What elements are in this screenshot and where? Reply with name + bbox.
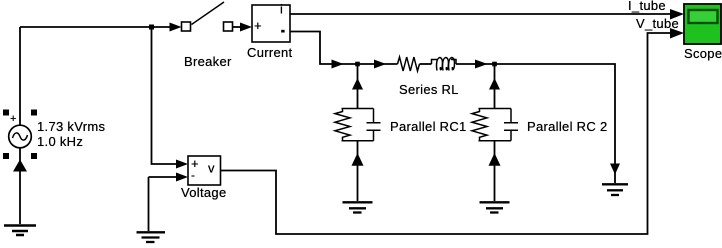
current measurement block U Current [252,2,290,43]
ground under source [4,226,36,236]
selection handle bottom-right [31,153,37,159]
svg-text:-: - [191,168,195,182]
svg-text:Parallel RC 2: Parallel RC 2 [527,119,607,134]
arrow into scope input 2 [670,28,684,39]
source circle [9,125,32,148]
arrow into scope input 1 [670,9,684,20]
arrow on bus before resistor [374,60,386,69]
svg-text:+: + [10,113,16,125]
wire breaker square2 to current arrow [233,26,244,28]
arrow up into RC2 block bottom [489,153,501,166]
wire RC1 bottom to ground [357,141,359,201]
scope block [684,4,721,44]
ground under RC2 [480,202,510,212]
breaker right contact square [224,22,233,31]
resistor R series zigzag [398,57,420,71]
wire source bottom to ground [19,148,21,224]
svg-text:1.0 kHz: 1.0 kHz [37,134,83,149]
wire RC2 junction drop [494,64,496,109]
arrow on bus before RC2 junction [475,60,488,69]
wire Voltage - input from ground [149,177,178,231]
wire bus resistor to inductor [420,63,432,65]
wire Current - output down to RL bus [290,32,398,65]
svg-text:Breaker: Breaker [184,54,232,69]
parallel RC1 block [335,109,381,141]
svg-text:Voltage: Voltage [181,185,226,200]
selection handle top-right [31,110,37,116]
parallel RC2 block [472,109,518,141]
arrow up into source bottom [13,160,27,172]
wire left vertical source column [19,27,21,126]
voltage measurement block U Voltage [176,156,221,185]
inductor L series coils [432,60,438,65]
ground under RC1 [343,202,373,212]
wire Voltage v output to V_tube scope input [221,33,672,234]
svg-text:1.73 kVrms: 1.73 kVrms [37,119,105,134]
ground right of bus [602,184,628,195]
svg-text:I_tube: I_tube [628,0,666,13]
arrow into Current block [240,23,252,32]
junction node RC1 [355,62,360,67]
breaker left contact square [182,22,191,31]
wire junction drop to Voltage + input [152,27,178,164]
breaker open switch diagonal [192,2,225,25]
wire Current i output to scope [290,13,670,15]
wire RC1 junction drop [357,64,359,109]
AC voltage source V1 [3,110,37,172]
arrow on bus after current [332,60,344,69]
wire bus inductor to right ground column [456,64,615,183]
junction node at breaker/voltage split [149,25,154,30]
junction node RC2 [492,62,497,67]
selection handle top-left [3,110,9,116]
svg-text:i: i [280,2,283,17]
wire RC2 bottom to ground [494,141,496,201]
svg-text:+: + [254,18,262,33]
arrow up into RC1 block bottom [352,153,364,166]
svg-text:v: v [208,161,215,176]
ground under Voltage [137,232,166,242]
svg-text:Current: Current [247,45,293,60]
arrow up into RC1 junction [352,78,363,90]
arrow into breaker [170,23,182,32]
selection handle bottom-left [3,153,9,159]
wire top horizontal from source to breaker [20,26,170,28]
svg-text:Scope: Scope [684,46,722,61]
svg-text:Parallel RC1: Parallel RC1 [390,119,467,134]
svg-text:Series RL: Series RL [399,82,459,97]
arrow down into right ground [610,164,620,175]
source sine wave [13,133,28,140]
arrow up into RC2 junction [489,78,500,90]
